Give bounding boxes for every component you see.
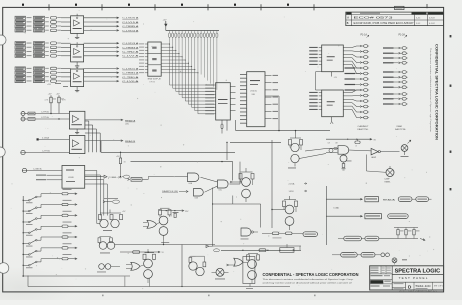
svg-text:4-9-92: 4-9-92: [429, 18, 436, 20]
svg-text:DO NOT SCALE DRAWING SCALE: DO NOT SCALE DRAWING SCALE 1/2:1: [399, 289, 437, 292]
svg-text:and may not be used or disclos: and may not be used or disclosed without…: [263, 282, 353, 285]
svg-text:REAR: REAR: [397, 125, 403, 128]
svg-text:C-TP5 A: C-TP5 A: [41, 116, 49, 119]
svg-text:FASTPNL: FASTPNL: [395, 128, 407, 131]
svg-text:(5V): (5V): [125, 124, 129, 126]
svg-text:SW DIP-8: SW DIP-8: [148, 78, 162, 80]
svg-text:5-4C: 5-4C: [416, 18, 421, 20]
svg-text:C-TP4 A: C-TP4 A: [42, 150, 50, 153]
svg-text:+5V: +5V: [47, 84, 51, 86]
svg-text:ECO# 0573: ECO# 0573: [354, 17, 395, 20]
svg-text:8 POS: 8 POS: [150, 81, 156, 83]
svg-text:This document contains confide: This document contains confidential info…: [429, 48, 432, 132]
svg-text:2.13mA: 2.13mA: [42, 137, 50, 140]
svg-text:This document contains confide: This document contains confidential info…: [263, 278, 355, 281]
svg-text:CABINET: CABINET: [358, 125, 370, 128]
svg-text:5942-100: 5942-100: [416, 285, 432, 288]
svg-text:SHT 1 OF 1: SHT 1 OF 1: [434, 285, 444, 287]
svg-text:(74LS): (74LS): [251, 91, 257, 93]
svg-text:CONFIDENTIAL SPECTRA LOGIC: CONFIDENTIAL SPECTRA LOGIC CORPORATION: [435, 44, 439, 140]
svg-text:C8: C8: [328, 142, 330, 144]
svg-text:LAMP: LAMP: [371, 156, 377, 159]
svg-text:READA: READA: [383, 199, 396, 202]
svg-text:TEST PANEL: TEST PANEL: [399, 276, 429, 280]
svg-text:SPECTRA LOGIC: SPECTRA LOGIC: [395, 269, 441, 275]
svg-text:U8: U8: [335, 142, 337, 144]
svg-text:6-1-92: 6-1-92: [429, 23, 436, 25]
svg-text:CONFIDENTIAL - SPECTRA LOGIC: CONFIDENTIAL - SPECTRA LOGIC CORPORATION: [263, 272, 359, 277]
svg-text:2.0mA: 2.0mA: [289, 182, 295, 185]
svg-text:5-9C: 5-9C: [416, 23, 421, 25]
svg-text:1.85V: 1.85V: [289, 191, 295, 193]
svg-text:P1-2A: P1-2A: [399, 33, 406, 36]
svg-text:C-TP6 A: C-TP6 A: [41, 110, 49, 113]
svg-text:LOAD: LOAD: [334, 207, 340, 210]
svg-text:PANEL: PANEL: [385, 180, 391, 183]
svg-text:C-SEL (B): C-SEL (B): [109, 177, 122, 179]
svg-text:C-CMD A: C-CMD A: [33, 168, 42, 171]
svg-text:FASTPNL: FASTPNL: [358, 128, 370, 131]
svg-text:LAMP: LAMP: [385, 178, 391, 181]
svg-text:LS240: LS240: [68, 177, 75, 179]
svg-text:ECO# 0248, PCB CH& PER ECO-MKU: ECO# 0248, PCB CH& PER ECO-MKUP: [354, 22, 415, 25]
svg-text:P1-1A: P1-1A: [361, 33, 368, 36]
svg-text:+5V: +5V: [163, 19, 167, 21]
